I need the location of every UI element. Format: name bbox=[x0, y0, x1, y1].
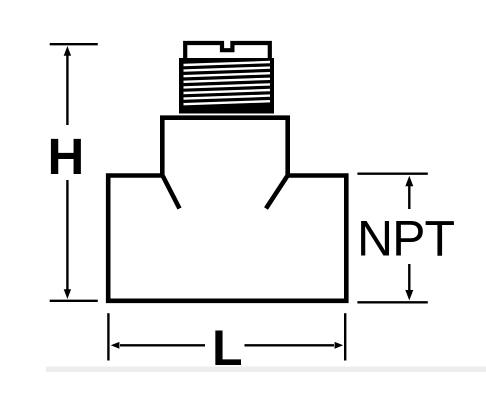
svg-text:H: H bbox=[48, 128, 85, 185]
svg-text:L: L bbox=[212, 320, 243, 376]
svg-text:NPT: NPT bbox=[357, 211, 454, 267]
